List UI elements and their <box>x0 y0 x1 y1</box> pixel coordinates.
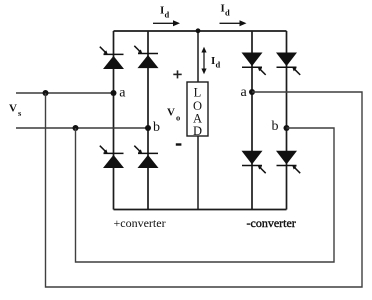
current arrow Id load (double headed) <box>203 52 205 70</box>
node dot on Vs bottom line <box>73 125 79 131</box>
thyristor T5 (-converter top-left) <box>242 53 266 75</box>
label + (load polarity) <box>173 70 181 78</box>
wire top rail <box>114 30 287 32</box>
wire inner loop (Vs bottom to -converter node b) <box>76 128 335 262</box>
wire +converter left leg <box>113 31 115 210</box>
wire load top <box>197 31 199 82</box>
node dot on Vs top line <box>43 90 49 96</box>
svg-text:s: s <box>18 108 22 118</box>
wire Vs bottom line <box>16 127 148 129</box>
svg-text:a: a <box>119 86 126 101</box>
thyristor T2 (+converter top-right) <box>134 46 158 68</box>
wire Vs top line <box>16 92 114 94</box>
node junction dot on top rail <box>196 28 201 33</box>
svg-text:a: a <box>241 85 248 100</box>
wire -converter right leg <box>286 31 288 210</box>
svg-text:V: V <box>9 103 17 115</box>
node b (-converter) <box>284 125 290 131</box>
svg-text:V: V <box>167 107 175 119</box>
wire load bottom <box>197 136 199 210</box>
node a (+converter) <box>111 90 117 96</box>
thyristor T6 (-converter top-right) <box>276 53 300 75</box>
thyristor T4 (+converter bottom-right) <box>134 146 158 168</box>
svg-text:d: d <box>165 10 170 20</box>
thyristor T1 (+converter top-left) <box>100 47 124 69</box>
thyristor T8 (-converter bottom-right) <box>276 151 300 173</box>
thyristor T3 (+converter bottom-left) <box>100 146 124 168</box>
svg-text:L: L <box>194 86 202 100</box>
thyristor T7 (-converter bottom-left) <box>242 151 266 173</box>
svg-text:o: o <box>176 113 180 123</box>
node b (+converter) <box>145 125 151 131</box>
svg-text:d: d <box>216 60 221 70</box>
wire bottom rail <box>114 209 287 211</box>
svg-text:d: d <box>225 8 230 18</box>
svg-text:-converter: -converter <box>247 216 296 230</box>
load box LOAD <box>187 82 208 136</box>
svg-text:b: b <box>272 119 279 134</box>
node a (-converter) <box>249 89 255 95</box>
svg-text:b: b <box>153 120 160 135</box>
svg-text:D: D <box>193 124 202 138</box>
wire +converter right leg <box>147 31 149 210</box>
label - (load polarity) <box>176 143 182 145</box>
wire -converter left leg <box>251 31 253 210</box>
wire outer loop (Vs top to -converter node a) <box>46 92 363 287</box>
svg-text:+converter: +converter <box>114 216 166 230</box>
